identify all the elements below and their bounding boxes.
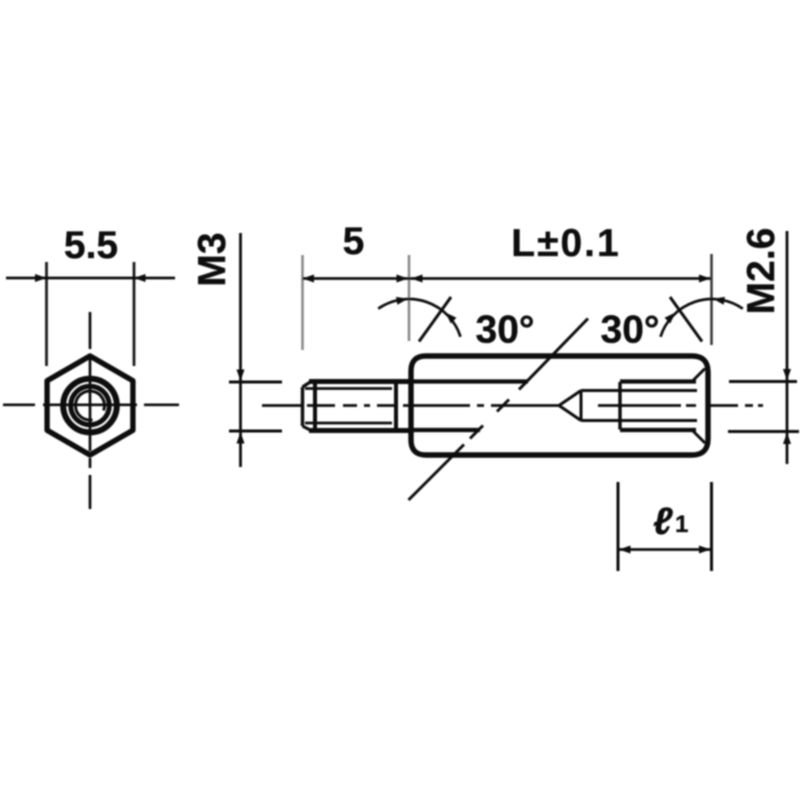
M3 extension line bottom	[229, 430, 282, 433]
arrow M2.6 top (pointing down)	[783, 369, 791, 381]
dimension M3 vertical line	[239, 233, 242, 467]
arrow M3 bottom (pointing up)	[237, 432, 245, 444]
horizontal centerline of hexagon	[3, 403, 179, 406]
svg-text:30°: 30°	[476, 309, 535, 352]
countersink chamfer top	[692, 369, 705, 382]
stud tip chamfer top	[303, 382, 312, 388]
right 30° chamfer reference line	[670, 297, 702, 342]
dimension 5.5 line	[6, 277, 175, 280]
hex facet edge top	[413, 379, 528, 383]
stud tip chamfer bottom	[303, 426, 312, 431]
tapped hole minor line bottom	[581, 419, 697, 422]
countersink chamfer bottom	[692, 430, 705, 443]
thread major circle	[71, 386, 110, 425]
arrow M3 top (pointing down)	[237, 370, 245, 382]
M2.6 extension stub top	[729, 380, 797, 383]
svg-text:30°: 30°	[601, 309, 660, 352]
svg-text:1: 1	[675, 511, 688, 538]
full thread start vertical	[618, 382, 621, 430]
right 30° arc	[661, 299, 743, 337]
extension line at body left face (grey)	[408, 255, 411, 341]
left 30° chamfer reference line	[419, 297, 451, 342]
svg-text:M2.6: M2.6	[740, 228, 783, 315]
chamfer circle	[63, 379, 117, 433]
dimension 5.5 extension line left	[45, 262, 48, 366]
hex body outline (side view)	[411, 356, 708, 455]
svg-text:5.5: 5.5	[64, 224, 118, 267]
arrow l1 right	[699, 546, 711, 554]
arrow 5 left	[303, 275, 315, 283]
hexagon body (end view, across-flats 5.5)	[47, 356, 133, 455]
stud major diameter top	[309, 379, 412, 384]
arrow 5.5 right	[134, 274, 146, 282]
left 30° arc	[378, 299, 460, 337]
arrow l1 left	[619, 546, 631, 554]
arrow 5.5 left	[35, 274, 47, 282]
tapped hole major line bottom	[620, 428, 696, 432]
drill point cone	[559, 391, 581, 421]
arrow L left	[411, 275, 423, 283]
thread runout vertical	[394, 382, 398, 431]
tapped hole minor line top	[581, 389, 697, 392]
right 30° arrow at chamfer line	[665, 310, 679, 324]
svg-text:5: 5	[343, 220, 365, 263]
extension line at stud tip (grey)	[301, 255, 304, 350]
arrow L right	[699, 275, 711, 283]
drill cone base line	[580, 391, 583, 421]
M2.6 extension stub bottom	[728, 430, 799, 433]
male stud tip flat	[301, 387, 304, 426]
stud major diameter bottom	[309, 428, 412, 433]
thread start vertical	[313, 382, 317, 431]
extension line at body right face	[710, 254, 713, 345]
M3 extension line top	[229, 381, 282, 384]
svg-text:L±0.1: L±0.1	[511, 222, 620, 265]
dimension line 5 / L±0.1	[303, 277, 711, 280]
arrow 5 right	[397, 275, 409, 283]
l1 dimension line	[619, 548, 711, 551]
stud thread minor line top	[305, 387, 392, 390]
long diagonal dash 2	[497, 400, 509, 412]
long diagonal dash 1	[470, 426, 483, 439]
thread minor arc (with gap)	[75, 391, 104, 420]
svg-text:ℓ: ℓ	[653, 501, 673, 543]
stud thread minor line bottom	[305, 422, 392, 425]
main horizontal centerline	[262, 404, 763, 407]
vertical centerline of hexagon	[89, 312, 92, 509]
arrow M2.6 bottom (pointing up)	[783, 433, 791, 445]
left 30° arrow at vertical	[396, 295, 409, 305]
hex facet edge bottom	[413, 428, 480, 432]
M2.6 dimension vertical line	[786, 231, 789, 464]
long diagonal flat indicator (lower solid)	[409, 445, 465, 501]
dimension 5.5 extension line right	[133, 262, 136, 366]
l1 extension line right	[710, 482, 713, 571]
l1 extension line left	[617, 482, 620, 571]
left 30° arrow at chamfer line	[443, 310, 457, 324]
tapped hole major line top	[620, 379, 696, 383]
long diagonal (upper solid)	[519, 319, 588, 390]
svg-text:M3: M3	[191, 232, 234, 286]
right 30° arrow at vertical	[712, 295, 725, 305]
